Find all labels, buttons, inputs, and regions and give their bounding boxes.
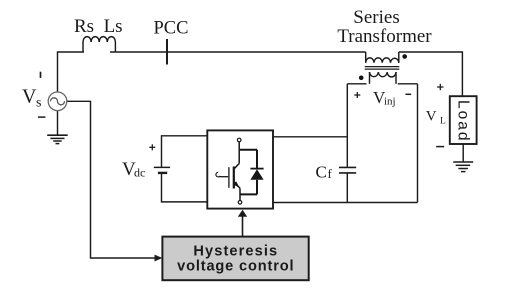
svg-text:inj: inj <box>384 96 396 108</box>
svg-text:Series: Series <box>353 7 399 28</box>
svg-text:Transformer: Transformer <box>337 26 432 47</box>
svg-text:Load: Load <box>455 100 472 142</box>
svg-text:s: s <box>36 96 41 111</box>
svg-text:voltage control: voltage control <box>177 258 294 274</box>
svg-text:PCC: PCC <box>154 18 189 38</box>
svg-text:dc: dc <box>134 166 145 180</box>
svg-text:f: f <box>328 166 333 181</box>
svg-text:Rs Ls: Rs Ls <box>74 16 123 37</box>
svg-text:L: L <box>440 117 446 127</box>
svg-text:Hysteresis: Hysteresis <box>193 243 278 259</box>
svg-text:C: C <box>316 163 327 182</box>
svg-text:V: V <box>22 85 37 107</box>
svg-text:V: V <box>426 108 437 124</box>
